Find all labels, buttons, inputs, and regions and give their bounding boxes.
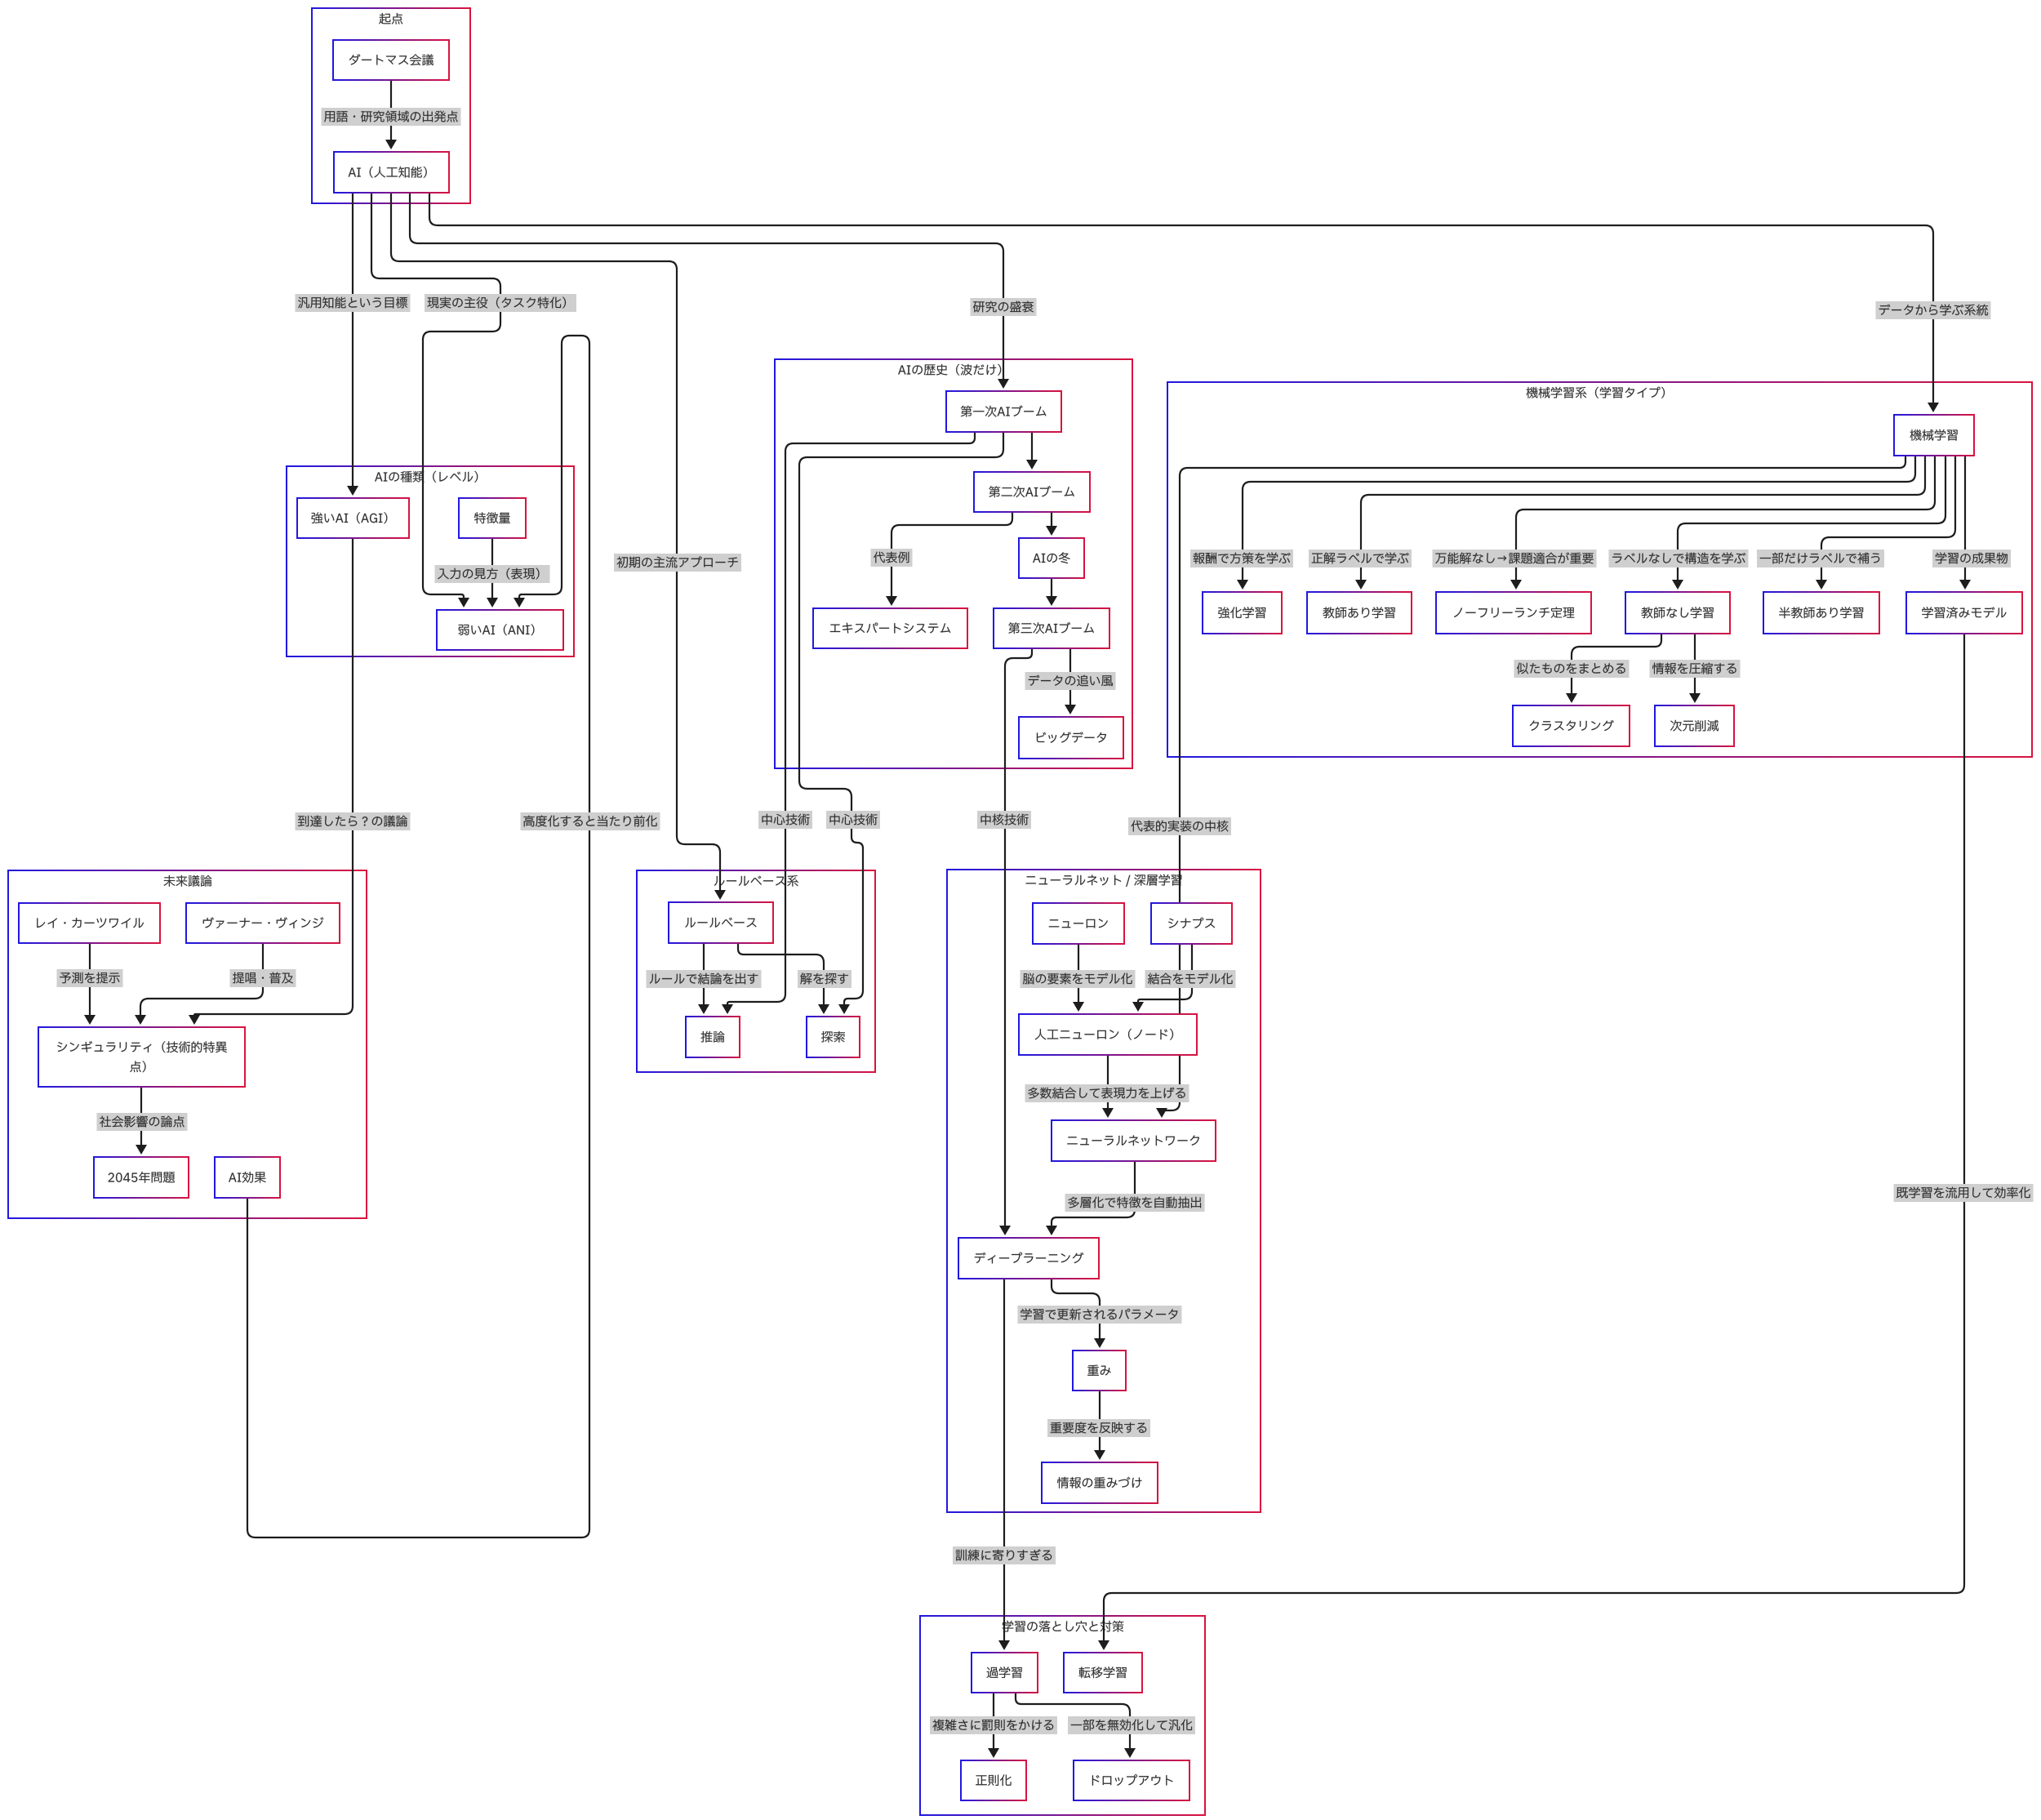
edge シナプス→人工ニューロン xyxy=(1132,944,1192,1012)
edge label 現実の主役（タスク特化） xyxy=(425,294,576,312)
edge 機械学習→半教師あり学習 xyxy=(1816,456,1955,590)
edge label 訓練に寄りすぎる xyxy=(953,1546,1056,1564)
node 探索 xyxy=(807,1017,860,1057)
edge label 初期の主流アプローチ xyxy=(614,554,741,572)
node ビッグデータ xyxy=(1019,717,1123,759)
edge ディープラーニング→過学習 xyxy=(998,1279,1010,1650)
edge 教師なし学習→クラスタリング xyxy=(1566,634,1661,703)
edge 過学習→正則化 xyxy=(988,1693,999,1758)
node シナプス xyxy=(1151,903,1232,944)
edge label 予測を提示 xyxy=(57,969,123,987)
node 次元削減 xyxy=(1655,705,1734,746)
edge 重み→情報の重みづけ xyxy=(1094,1391,1105,1460)
node エキスパートシステム xyxy=(813,608,967,648)
edge ルールベース→推論 xyxy=(698,943,709,1014)
edge 第三次→ディープラーニング xyxy=(999,648,1032,1235)
edge 機械学習→ノーフリーランチ定理 xyxy=(1510,456,1935,590)
edge label 万能解なし→課題適合が重要 xyxy=(1433,550,1597,567)
edge label ルールで結論を出す xyxy=(647,970,762,988)
node 第一次AIブーム xyxy=(946,391,1061,432)
edge 第一次→第二次 xyxy=(1026,432,1038,469)
node 強いAI（AGI） xyxy=(297,498,409,538)
edge label データから学ぶ系統 xyxy=(1876,301,1991,319)
edge label 代表的実装の中核 xyxy=(1128,817,1231,835)
cluster 機械学習系（学習タイプ） xyxy=(1167,382,2032,757)
edge label 脳の要素をモデル化 xyxy=(1020,970,1136,988)
edge label 到達したら？の議論 xyxy=(296,812,411,830)
edge ディープラーニング→重み xyxy=(1052,1279,1105,1348)
node ディープラーニング xyxy=(958,1238,1099,1279)
edge label 学習の成果物 xyxy=(1932,550,2011,567)
node シンギュラリティ（技術的特異点） xyxy=(38,1027,245,1087)
node AIの冬 xyxy=(1019,538,1084,578)
node 教師なし学習 xyxy=(1625,592,1730,634)
node ヴァーナー・ヴィンジ xyxy=(186,903,340,943)
node ニューロン xyxy=(1033,903,1124,944)
edge label 入力の見方（表現） xyxy=(435,565,550,583)
node 学習済みモデル xyxy=(1906,592,2022,634)
edge 特徴量→弱いAI xyxy=(487,538,498,607)
node 第二次AIブーム xyxy=(974,472,1090,512)
node 推論 xyxy=(686,1017,740,1057)
edge 機械学習→教師なし学習 xyxy=(1672,456,1945,590)
edge label 報酬で方策を学ぶ xyxy=(1190,550,1293,567)
edge label 正解ラベルで学ぶ xyxy=(1309,550,1412,567)
cluster AIの歴史（波だけ） xyxy=(775,359,1132,768)
edge 第三次→ビッグデータ xyxy=(1065,648,1076,714)
node 第三次AIブーム xyxy=(994,608,1109,648)
edge ルールベース→探索 xyxy=(738,943,829,1014)
edge AI→第一次AIブーム xyxy=(410,193,1009,389)
node ドロップアウト xyxy=(1074,1760,1189,1800)
edge label 多層化で特徴を自動抽出 xyxy=(1065,1194,1205,1212)
edge AI→強いAI xyxy=(347,193,358,496)
cluster 起点 xyxy=(312,8,470,203)
node 特徴量 xyxy=(459,498,526,538)
edge AI→機械学習 xyxy=(429,193,1939,412)
node ダートマス会議 xyxy=(333,40,449,80)
edge 強いAI→シンギュラリティ xyxy=(189,538,353,1025)
edge label ラベルなしで構造を学ぶ xyxy=(1609,550,1749,567)
node 半教師あり学習 xyxy=(1763,592,1879,634)
edge ニューロン→人工ニューロン xyxy=(1073,944,1084,1012)
edge 第二次→AIの冬 xyxy=(1046,512,1057,536)
node 2045年問題 xyxy=(94,1157,189,1198)
edge 第一次→探索 xyxy=(799,432,1003,1014)
edge ダートマス会議→AI xyxy=(385,80,397,149)
cluster ニューラルネット / 深層学習 xyxy=(947,870,1261,1512)
edge label 提唱・普及 xyxy=(230,969,296,987)
edge label 中心技術 xyxy=(758,811,812,829)
node レイ・カーツワイル xyxy=(19,903,160,943)
edge label 似たものをまとめる xyxy=(1514,660,1630,678)
node 弱いAI（ANI） xyxy=(437,610,563,650)
node 過学習 xyxy=(972,1653,1038,1693)
edge label 中核技術 xyxy=(977,811,1031,829)
edge label 一部だけラベルで補う xyxy=(1757,550,1884,567)
edge label 複雑さに罰則をかける xyxy=(930,1716,1057,1734)
edge label 汎用知能という目標 xyxy=(296,294,411,312)
edge 学習済みモデル→転移学習 xyxy=(1098,634,1964,1650)
node 重み xyxy=(1073,1351,1126,1391)
edge label 研究の盛衰 xyxy=(971,298,1037,316)
edge label 学習で更新されるパラメータ xyxy=(1018,1306,1182,1324)
node AI（人工知能） xyxy=(334,152,449,193)
edge label 代表例 xyxy=(871,549,913,567)
edge 機械学習→教師あり学習 xyxy=(1355,456,1925,590)
edge label 中心技術 xyxy=(826,811,880,829)
node 教師あり学習 xyxy=(1307,592,1412,634)
edge label 解を探す xyxy=(798,970,852,988)
edge 機械学習→学習済みモデル xyxy=(1959,456,1971,590)
node ノーフリーランチ定理 xyxy=(1436,592,1591,634)
cluster AIの種類（レベル） xyxy=(287,466,574,656)
edge label 多数結合して表現力を上げる xyxy=(1025,1084,1189,1102)
cluster 学習の落とし穴と対策 xyxy=(920,1616,1205,1815)
edge label 高度化すると当たり前化 xyxy=(521,812,660,830)
edge label 結合をモデル化 xyxy=(1145,970,1236,988)
edge label 社会影響の論点 xyxy=(97,1113,188,1131)
node 転移学習 xyxy=(1064,1653,1142,1693)
node クラスタリング xyxy=(1513,705,1630,746)
edge ヴィンジ→シンギュラリティ xyxy=(135,943,263,1025)
cluster ルールベース系 xyxy=(637,870,875,1072)
edge AI→ルールベース xyxy=(391,193,726,900)
edge ニューラルネットワーク→ディープラーニング xyxy=(1046,1161,1135,1235)
edge AIの冬→第三次 xyxy=(1046,578,1057,606)
node AI効果 xyxy=(215,1157,280,1198)
node 人工ニューロン（ノード） xyxy=(1019,1014,1197,1055)
edge シンギュラリティ→2045年問題 xyxy=(136,1087,147,1155)
node 機械学習 xyxy=(1894,415,1974,456)
edge label データの追い風 xyxy=(1025,672,1116,690)
edge 第一次→推論 xyxy=(722,432,975,1014)
edge 人工ニューロン→ニューラルネットワーク xyxy=(1102,1055,1114,1118)
edge label 用語・研究領域の出発点 xyxy=(322,108,461,126)
edge AI効果→弱いAI xyxy=(247,336,589,1537)
node ルールベース xyxy=(669,902,773,943)
edge label 情報を圧縮する xyxy=(1650,660,1741,678)
edge 機械学習→ニューラルネットワーク xyxy=(1156,456,1905,1118)
edge 教師なし学習→次元削減 xyxy=(1689,634,1701,703)
edge label 一部を無効化して汎化 xyxy=(1068,1716,1195,1734)
node 強化学習 xyxy=(1203,592,1282,634)
node 情報の重みづけ xyxy=(1042,1462,1158,1503)
node ニューラルネットワーク xyxy=(1052,1120,1216,1161)
edge AI→弱いAI xyxy=(371,193,500,607)
cluster 未来議論 xyxy=(8,870,367,1218)
edge 過学習→ドロップアウト xyxy=(1016,1693,1136,1758)
edge label 重要度を反映する xyxy=(1047,1419,1150,1437)
edge 第二次→エキスパートシステム xyxy=(886,512,1012,606)
edge レイ→シンギュラリティ xyxy=(84,943,96,1025)
node 正則化 xyxy=(961,1760,1026,1800)
edge 機械学習→強化学習 xyxy=(1237,456,1915,590)
edge label 既学習を流用して効率化 xyxy=(1894,1184,2034,1202)
